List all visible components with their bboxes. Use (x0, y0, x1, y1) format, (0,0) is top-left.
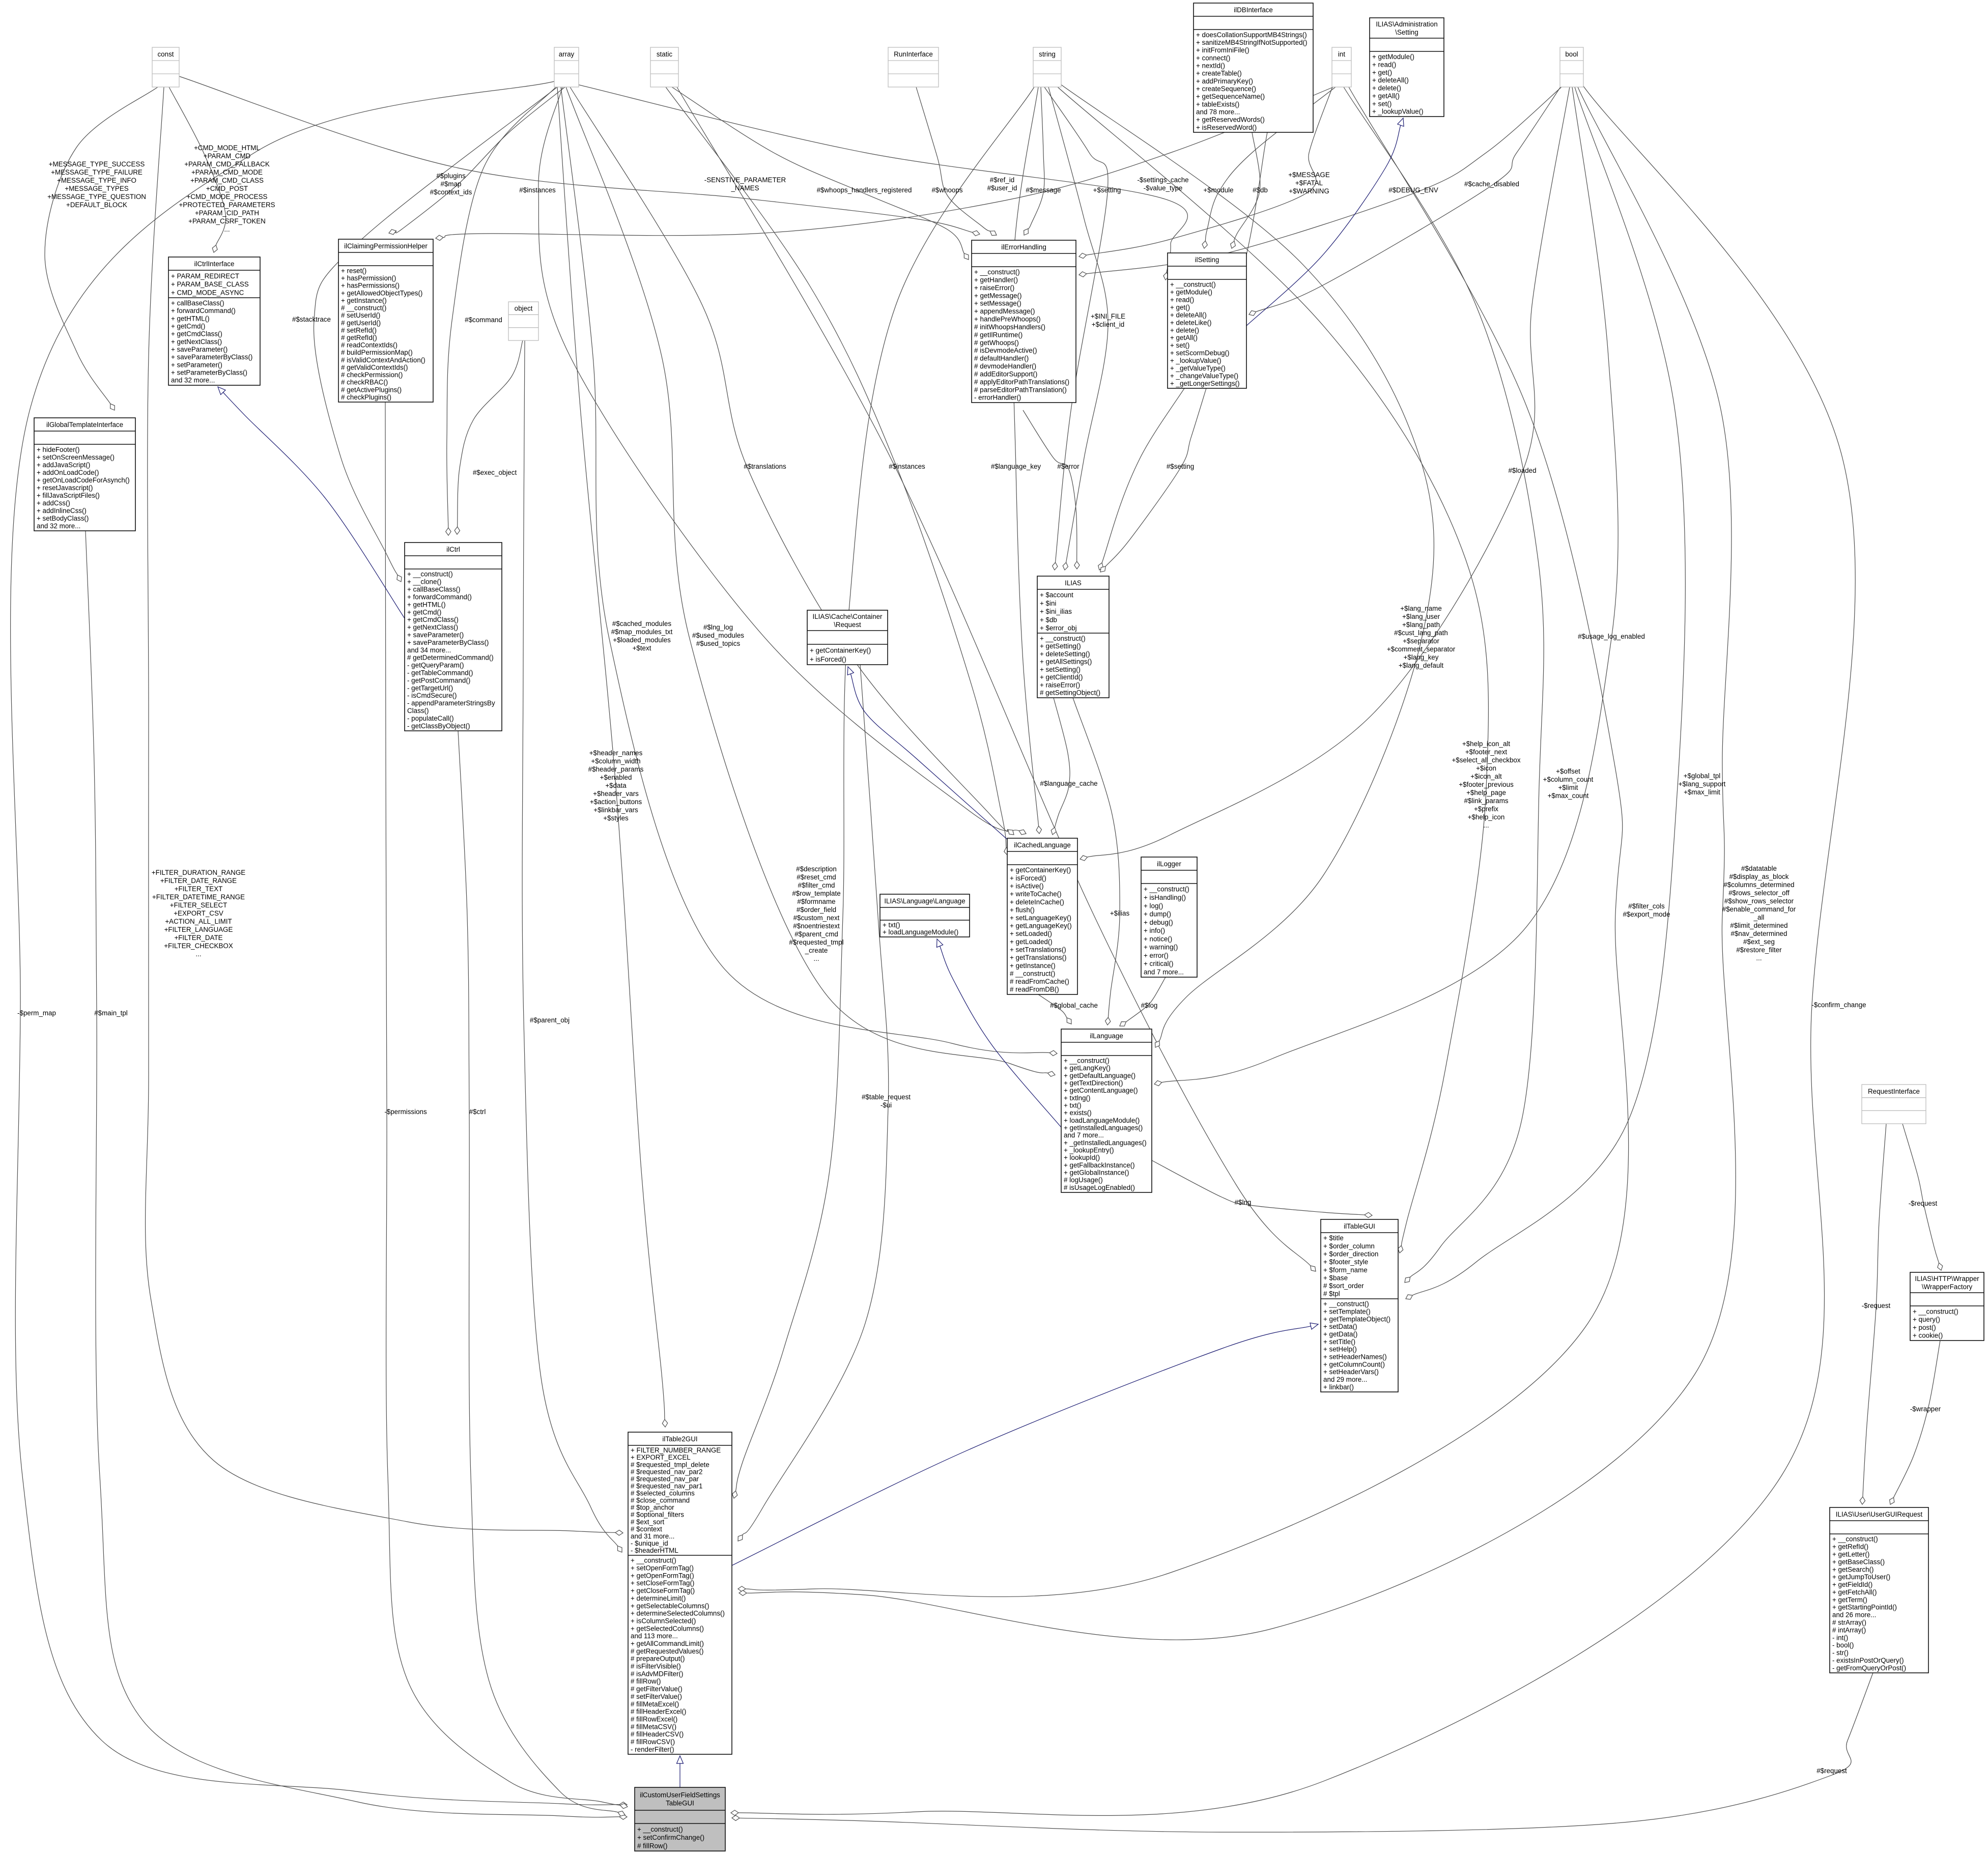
svg-text:+ getSequenceName(): + getSequenceName() (1196, 93, 1265, 100)
svg-text:+ __construct(): + __construct() (1832, 1535, 1878, 1543)
svg-text:#$instances: #$instances (519, 186, 556, 194)
edge int to ilTable2GUI (#$filter_cols #$export_mode) (738, 87, 1629, 1597)
svg-text:+ query(): + query() (1913, 1316, 1940, 1323)
edge bool to ilTable2GUI (#$datatable ...) (739, 87, 1736, 1640)
svg-text:ilErrorHandling: ilErrorHandling (1001, 243, 1046, 251)
svg-text:+ isForced(): + isForced() (810, 656, 846, 663)
edge int to ilErrorHandling (+$MESSAGE +$FATAL +$WARNING) (1079, 87, 1332, 259)
svg-text:# getUserId(): # getUserId() (341, 319, 381, 327)
svg-text:# $tpl: # $tpl (1323, 1290, 1340, 1298)
svg-text:+ debug(): + debug() (1144, 919, 1173, 926)
svg-text:+ deleteSetting(): + deleteSetting() (1040, 650, 1090, 658)
svg-text:# isUsageLogEnabled(): # isUsageLogEnabled() (1064, 1184, 1135, 1191)
svg-text:+ __construct(): + __construct() (1913, 1307, 1958, 1315)
edge object to ilTable2GUI (#$parent_obj) (522, 340, 622, 1552)
edge WrapperFactory to UserGUIRequest (-$wrapper) (1890, 1341, 1940, 1504)
svg-text:ilCachedLanguage: ilCachedLanguage (1014, 841, 1071, 849)
svg-text:+ __construct(): + __construct() (974, 268, 1020, 276)
svg-text:+ raiseError(): + raiseError() (1040, 681, 1080, 689)
svg-text:and 78 more...: and 78 more... (1196, 108, 1240, 116)
primitive type array (554, 47, 579, 87)
svg-text:# readContextIds(): # readContextIds() (341, 341, 397, 349)
svg-text:+ setCloseFormTag(): + setCloseFormTag() (631, 1579, 694, 1587)
svg-text:+ __construct(): + __construct() (1064, 1057, 1110, 1065)
svg-text:+ getFallbackInstance(): + getFallbackInstance() (1064, 1161, 1135, 1169)
svg-text:object: object (515, 305, 533, 312)
edge ilDBInterface to ilSetting (#$db) (1231, 132, 1260, 248)
svg-text:+ getData(): + getData() (1323, 1330, 1357, 1338)
svg-text:+ getOnLoadCodeForAsynch(): + getOnLoadCodeForAsynch() (37, 476, 130, 484)
svg-text:and 32 more...: and 32 more... (171, 377, 215, 384)
edge array to ilSetting (-$settings_cache -$value_type) (575, 84, 1187, 280)
svg-text:+ reset(): + reset() (341, 267, 366, 275)
svg-text:\WrapperFactory: \WrapperFactory (1922, 1283, 1973, 1291)
edge array to ilCtrl (#$stacktrace) (314, 87, 557, 582)
svg-text:+ addInlineCss(): + addInlineCss() (37, 507, 87, 515)
svg-text:ilCtrl: ilCtrl (446, 546, 460, 553)
class ILIAS Administration Setting (1370, 18, 1444, 117)
svg-text:+ saveParameterByClass(): + saveParameterByClass() (407, 639, 489, 646)
svg-text:+ getCmdClass(): + getCmdClass() (171, 330, 222, 338)
svg-text:+ getAllCommandLimit(): + getAllCommandLimit() (631, 1640, 704, 1647)
svg-text:+ fillJavaScriptFiles(): + fillJavaScriptFiles() (37, 492, 100, 499)
svg-text:# getValidContextIds(): # getValidContextIds() (341, 364, 408, 372)
edge array to ilLanguage (#$cached_modules ...) (561, 87, 1057, 1056)
svg-text:+ _getLongerSettings(): + _getLongerSettings() (1170, 380, 1240, 387)
svg-text:# $close_command: # $close_command (631, 1497, 690, 1504)
svg-text:#$whoops_handlers_registered: #$whoops_handlers_registered (817, 186, 912, 194)
svg-text:+ $title: + $title (1323, 1234, 1344, 1242)
svg-text:# setRefId(): # setRefId() (341, 326, 377, 334)
svg-text:+ txt(): + txt() (883, 921, 900, 929)
svg-text:- int(): - int() (1832, 1634, 1848, 1641)
svg-text:+ setOnScreenMessage(): + setOnScreenMessage() (37, 453, 115, 461)
edge array to ilLanguage (#$lng_log ...) (566, 87, 1055, 1076)
svg-text:+ setParameterByClass(): + setParameterByClass() (171, 369, 247, 377)
svg-text:# fillRowCSV(): # fillRowCSV() (631, 1738, 675, 1746)
svg-text:const: const (157, 50, 174, 58)
svg-text:ilDBInterface: ilDBInterface (1234, 6, 1273, 14)
svg-text:+ delete(): + delete() (1372, 84, 1401, 92)
svg-text:+ __construct(): + __construct() (631, 1557, 676, 1564)
svg-text:+ setTemplate(): + setTemplate() (1323, 1308, 1371, 1316)
svg-text:+ getTranslations(): + getTranslations() (1010, 954, 1067, 961)
svg-text:+ connect(): + connect() (1196, 54, 1230, 62)
svg-text:+ loadLanguageModule(): + loadLanguageModule() (1064, 1117, 1140, 1124)
class ilCustomUserFieldSettingsTableGUI (highlighted) (635, 1787, 725, 1851)
svg-text:+ saveParameter(): + saveParameter() (171, 346, 228, 353)
svg-text:+ CMD_MODE_ASYNC: + CMD_MODE_ASYNC (171, 289, 244, 296)
svg-text:+ getCmd(): + getCmd() (171, 323, 205, 330)
svg-text:+ delete(): + delete() (1170, 326, 1199, 334)
svg-text:ilCustomUserFieldSettings: ilCustomUserFieldSettings (640, 1791, 720, 1799)
svg-text:+ setLanguageKey(): + setLanguageKey() (1010, 914, 1071, 922)
svg-text:+ exists(): + exists() (1064, 1109, 1092, 1117)
edge string to ilErrorHandling (#$message) (1024, 87, 1044, 235)
edge static to ilErrorHandling (#$whoops_handlers_registered) (672, 87, 969, 260)
class ilLanguage (1061, 1029, 1152, 1192)
svg-text:+ getJumpToUser(): + getJumpToUser() (1832, 1573, 1890, 1581)
class ilDBInterface (1194, 3, 1313, 132)
svg-text:# defaultHandler(): # defaultHandler() (974, 355, 1029, 362)
edge ilClaimingPermissionHelper to ilCustomUserFieldSettingsTableGUI (-$permissions) (385, 402, 628, 1809)
svg-text:+ read(): + read() (1372, 61, 1396, 68)
svg-text:# fillMetaExcel(): # fillMetaExcel() (631, 1700, 679, 1708)
svg-text:+ initFromIniFile(): + initFromIniFile() (1196, 46, 1249, 54)
edge ILIAS to ilLanguage (+$ilias) (1073, 698, 1120, 1025)
svg-text:+ doesCollationSupportMB4Strin: + doesCollationSupportMB4Strings() (1196, 31, 1307, 39)
svg-text:# parseEditorPathTranslation(): # parseEditorPathTranslation() (974, 386, 1067, 393)
svg-text:\Request: \Request (834, 621, 861, 629)
svg-text:#$lng: #$lng (1235, 1199, 1252, 1206)
svg-text:#$filter_cols#$export_mode: #$filter_cols#$export_mode (1623, 902, 1670, 918)
svg-text:+ getColumnCount(): + getColumnCount() (1323, 1360, 1385, 1368)
svg-text:+ hideFooter(): + hideFooter() (37, 446, 79, 453)
svg-text:+ linkbar(): + linkbar() (1323, 1383, 1354, 1391)
interface ilGlobalTemplateInterface (34, 418, 135, 531)
svg-text:and 113 more...: and 113 more... (631, 1632, 678, 1640)
svg-text:+ getModule(): + getModule() (1170, 289, 1212, 296)
svg-text:# getDeterminedCommand(): # getDeterminedCommand() (407, 654, 494, 662)
svg-text:+$module: +$module (1203, 186, 1233, 194)
svg-text:# $requested_nav_par1: # $requested_nav_par1 (631, 1483, 702, 1490)
svg-text:-$wrapper: -$wrapper (1910, 1405, 1941, 1413)
edge array to ilClaimingPermissionHelper (#$plugins #$map #$context_ids) (389, 87, 565, 235)
class ILIAS User UserGUIRequest (1830, 1507, 1928, 1673)
edge ilDBInterface to ILIAS (+$db) (1098, 132, 1267, 570)
edge RunInterface to ilErrorHandling (#$whoops) (916, 87, 997, 236)
svg-text:+ getHTML(): + getHTML() (171, 315, 210, 322)
svg-text:#$message: #$message (1026, 186, 1061, 194)
svg-text:+ addCss(): + addCss() (37, 499, 70, 507)
svg-text:+ dump(): + dump() (1144, 910, 1171, 918)
svg-text:- getTargetUrl(): - getTargetUrl() (407, 684, 453, 692)
svg-text:+ isActive(): + isActive() (1010, 882, 1044, 890)
svg-text:#$request: #$request (1816, 1767, 1847, 1775)
svg-text:+ createTable(): + createTable() (1196, 70, 1242, 77)
svg-text:+ cookie(): + cookie() (1913, 1332, 1943, 1340)
svg-text:- isCmdSecure(): - isCmdSecure() (407, 692, 457, 699)
svg-text:+ nextId(): + nextId() (1196, 62, 1225, 70)
svg-text:+ resetJavascript(): + resetJavascript() (37, 484, 93, 492)
svg-text:+ getModule(): + getModule() (1372, 53, 1414, 61)
svg-text:# initWhoopsHandlers(): # initWhoopsHandlers() (974, 323, 1045, 331)
svg-text:+ setLoaded(): + setLoaded() (1010, 930, 1052, 937)
svg-text:#$language_key: #$language_key (991, 463, 1041, 470)
svg-text:+ lookupId(): + lookupId() (1064, 1154, 1100, 1161)
edge bool to ilCustomUserFieldSettingsTableGUI (-$confirm_change) (731, 84, 1855, 1815)
svg-text:-$settings_cache-$value_type: -$settings_cache-$value_type (1137, 176, 1188, 192)
svg-text:+ deleteLike(): + deleteLike() (1170, 319, 1212, 326)
svg-text:- str(): - str() (1832, 1649, 1849, 1657)
interface ilCtrlInterface (168, 257, 260, 385)
svg-text:+ addPrimaryKey(): + addPrimaryKey() (1196, 77, 1253, 85)
svg-text:and 34 more...: and 34 more... (407, 646, 451, 654)
class ilLogger (1141, 857, 1197, 977)
svg-text:-$request: -$request (1909, 1200, 1938, 1207)
svg-text:+ post(): + post() (1913, 1324, 1936, 1331)
svg-text:# __construct(): # __construct() (341, 304, 386, 312)
edge int to ilTableGUI (+$offset +$column_count +$limit +$max_count) (1344, 87, 1544, 1283)
svg-text:+ log(): + log() (1144, 902, 1163, 909)
svg-text:#$global_cache: #$global_cache (1050, 1002, 1098, 1009)
svg-text:+ FILTER_NUMBER_RANGE: + FILTER_NUMBER_RANGE (631, 1446, 721, 1454)
svg-text:+ isHandling(): + isHandling() (1144, 894, 1186, 901)
svg-text:-$permissions: -$permissions (384, 1108, 427, 1116)
svg-text:# $selected_columns: # $selected_columns (631, 1490, 695, 1497)
edge int to ilSetting (+$module) (1202, 87, 1336, 248)
inheritance ilLanguage to ILIAS\Language\Language (937, 939, 1062, 1127)
svg-text:+ read(): + read() (1170, 296, 1194, 304)
svg-text:+ getDefaultLanguage(): + getDefaultLanguage() (1064, 1072, 1135, 1079)
svg-text:- getTableCommand(): - getTableCommand() (407, 669, 473, 677)
svg-text:+ getCmdClass(): + getCmdClass() (407, 616, 459, 623)
svg-text:and 7 more...: and 7 more... (1144, 968, 1184, 976)
svg-text:+ forwardCommand(): + forwardCommand() (407, 593, 472, 601)
svg-text:+ determineLimit(): + determineLimit() (631, 1594, 686, 1602)
svg-text:# logUsage(): # logUsage() (1064, 1176, 1103, 1184)
svg-text:+ isForced(): + isForced() (1010, 874, 1046, 882)
svg-text:# getWhoops(): # getWhoops() (974, 339, 1019, 347)
svg-text:+ __construct(): + __construct() (407, 571, 453, 578)
svg-text:+ getRefId(): + getRefId() (1832, 1543, 1868, 1551)
svg-text:#$instances: #$instances (889, 463, 925, 470)
inheritance ilCachedLanguage to ILIAS\Cache\Container\Request (847, 667, 1009, 841)
primitive type int (1332, 47, 1351, 87)
svg-text:and 29 more...: and 29 more... (1323, 1376, 1367, 1383)
svg-text:+ createSequence(): + createSequence() (1196, 85, 1256, 93)
svg-text:+ setTranslations(): + setTranslations() (1010, 946, 1066, 954)
edge ilCtrl to ilCustomUserFieldSettingsTableGUI (#$ctrl) (458, 731, 625, 1816)
svg-text:static: static (657, 50, 673, 58)
svg-text:ilTable2GUI: ilTable2GUI (662, 1435, 697, 1443)
svg-text:\Setting: \Setting (1395, 29, 1418, 36)
svg-text:+ $error_obj: + $error_obj (1040, 624, 1077, 632)
svg-text:# readFromCache(): # readFromCache() (1010, 978, 1069, 985)
svg-text:ILIAS\Language\Language: ILIAS\Language\Language (884, 897, 965, 905)
svg-text:- $unique_id: - $unique_id (631, 1540, 668, 1547)
svg-text:+ forwardCommand(): + forwardCommand() (171, 307, 236, 315)
svg-text:+ hasPermission(): + hasPermission() (341, 274, 396, 282)
svg-text:# getFilterValue(): # getFilterValue() (631, 1685, 683, 1693)
svg-text:+ getAll(): + getAll() (1372, 92, 1400, 100)
edge string to ilTableGUI (+$help_icon_alt ...) (1058, 87, 1488, 1253)
svg-text:#$parent_obj: #$parent_obj (530, 1016, 570, 1024)
edge string to ilCachedLanguage (#$language_key) (1012, 87, 1041, 834)
svg-text:+ getNextClass(): + getNextClass() (171, 338, 222, 346)
svg-text:+ txt(): + txt() (1064, 1102, 1082, 1109)
svg-text:+ setData(): + setData() (1323, 1323, 1357, 1330)
svg-text:+ hasPermissions(): + hasPermissions() (341, 282, 400, 290)
edge ilErrorHandling to ILIAS (#$error) (1023, 410, 1080, 569)
svg-text:+ setMessage(): + setMessage() (974, 300, 1021, 307)
svg-text:+ getFetchAll(): + getFetchAll() (1832, 1588, 1877, 1596)
svg-text:#$whoops: #$whoops (931, 186, 962, 194)
svg-text:#$command: #$command (465, 316, 502, 324)
svg-text:+ addJavaScript(): + addJavaScript() (37, 461, 90, 469)
inheritance ilTable2GUI to ilTableGUI (732, 1323, 1318, 1565)
class ILIAS HTTP Wrapper WrapperFactory (1910, 1272, 1984, 1341)
svg-text:+ setSetting(): + setSetting() (1040, 666, 1081, 673)
svg-text:- getPostCommand(): - getPostCommand() (407, 676, 470, 684)
edge const to ilCtrlInterface (CMD/PARAM consts) (169, 87, 226, 252)
svg-text:# getRefId(): # getRefId() (341, 334, 377, 341)
edge ilCachedLanguage to ilLanguage (#$global_cache) (1038, 994, 1071, 1024)
svg-text:+ $order_direction: + $order_direction (1323, 1250, 1378, 1258)
svg-text:+ _getInstalledLanguages(): + _getInstalledLanguages() (1064, 1139, 1147, 1147)
svg-text:+ tableExists(): + tableExists() (1196, 100, 1239, 108)
svg-text:+ $ini: + $ini (1040, 600, 1056, 607)
edge const to ilTable2GUI (FILTER_* consts) (146, 87, 623, 1535)
class ilCtrl (405, 543, 502, 731)
svg-text:+ getSearch(): + getSearch() (1832, 1565, 1874, 1573)
svg-text:+ PARAM_BASE_CLASS: + PARAM_BASE_CLASS (171, 280, 249, 288)
svg-text:# intArray(): # intArray() (1832, 1626, 1866, 1634)
svg-text:- getQueryParam(): - getQueryParam() (407, 662, 464, 669)
svg-text:ilCtrlInterface: ilCtrlInterface (194, 260, 235, 268)
svg-text:# fillHeaderExcel(): # fillHeaderExcel() (631, 1708, 686, 1716)
svg-text:+$setting: +$setting (1093, 186, 1121, 194)
primitive type const (152, 47, 179, 87)
svg-text:RunInterface: RunInterface (894, 50, 933, 58)
svg-text:+ getContainerKey(): + getContainerKey() (810, 647, 871, 654)
svg-text:# $requested_nav_par2: # $requested_nav_par2 (631, 1468, 702, 1475)
svg-text:# getSettingObject(): # getSettingObject() (1040, 689, 1100, 697)
svg-text:array: array (559, 50, 575, 58)
class ilSetting (1168, 253, 1246, 388)
svg-text:RequestInterface: RequestInterface (1868, 1088, 1920, 1095)
svg-text:# fillRow(): # fillRow() (637, 1842, 668, 1849)
edge ilSetting to ILIAS (#$setting) (1100, 388, 1206, 572)
svg-text:#$main_tpl: #$main_tpl (94, 1009, 128, 1017)
svg-text:- $headerHTML: - $headerHTML (631, 1547, 678, 1554)
svg-text:# $requested_tmpl_delete: # $requested_tmpl_delete (631, 1461, 709, 1468)
svg-text:+ notice(): + notice() (1144, 935, 1172, 943)
svg-text:+ EXPORT_EXCEL: + EXPORT_EXCEL (631, 1454, 691, 1461)
edge string to ilTable2GUI (#$description ...) (732, 87, 1034, 1498)
svg-text:+ callBaseClass(): + callBaseClass() (407, 586, 461, 593)
svg-text:ilGlobalTemplateInterface: ilGlobalTemplateInterface (46, 421, 123, 429)
svg-text:and 7 more...: and 7 more... (1064, 1131, 1104, 1139)
svg-text:# getIlRuntime(): # getIlRuntime() (974, 331, 1023, 338)
edge RequestInterface to WrapperFactory (-$request) (1902, 1124, 1943, 1270)
svg-text:ILIAS\Cache\Container: ILIAS\Cache\Container (813, 613, 883, 620)
edge ILIAS to ilCachedLanguage (#$language_cache) (1051, 698, 1070, 835)
svg-text:- errorHandler(): - errorHandler() (974, 394, 1021, 402)
edge array to ilTable2GUI (+$header_names ...) (557, 87, 668, 1427)
edge ilLogger to ilLanguage (#$log) (1120, 977, 1166, 1026)
edge string to ILIAS (+$INI_FILE +$client_id) (1048, 87, 1108, 570)
svg-text:string: string (1039, 50, 1056, 58)
svg-text:# addEditorSupport(): # addEditorSupport() (974, 370, 1037, 378)
svg-text:ilTableGUI: ilTableGUI (1344, 1222, 1375, 1230)
svg-text:+ getAll(): + getAll() (1170, 334, 1198, 341)
svg-text:+ getAllSettings(): + getAllSettings() (1040, 658, 1092, 666)
edge bool to ilErrorHandling (#$DEBUG_ENV) (1079, 87, 1561, 277)
edge const to ilErrorHandling (SENSTIVE_PARAMETER_NAMES) (179, 76, 980, 236)
svg-text:#$loaded: #$loaded (1508, 467, 1536, 474)
svg-text:+ error(): + error() (1144, 952, 1169, 959)
svg-text:+ __construct(): + __construct() (1323, 1300, 1369, 1308)
class ilCachedLanguage (1007, 838, 1077, 994)
edge ilGlobalTemplateInterface to ilCustomUserFieldSettingsTableGUI (#$main_tpl) (86, 531, 627, 1819)
svg-text:# checkPermission(): # checkPermission() (341, 371, 403, 379)
svg-text:+ getHandler(): + getHandler() (974, 276, 1018, 284)
svg-text:# fillHeaderCSV(): # fillHeaderCSV() (631, 1730, 684, 1738)
svg-text:bool: bool (1565, 50, 1578, 58)
svg-text:+ $order_column: + $order_column (1323, 1242, 1375, 1250)
svg-text:- bool(): - bool() (1832, 1641, 1854, 1649)
svg-text:ilLogger: ilLogger (1157, 860, 1181, 868)
svg-text:# isFilterVisible(): # isFilterVisible() (631, 1663, 681, 1670)
svg-text:# fillRowExcel(): # fillRowExcel() (631, 1716, 677, 1723)
class ilTableGUI (1321, 1219, 1398, 1392)
edge array to ilCachedLanguage (#$instances) (538, 87, 1026, 835)
svg-text:+ sanitizeMB4StringIfNotSuppor: + sanitizeMB4StringIfNotSupported() (1196, 39, 1307, 46)
svg-text:# devmodeHandler(): # devmodeHandler() (974, 362, 1036, 370)
svg-text:+ callBaseClass(): + callBaseClass() (171, 299, 224, 307)
primitive type static (650, 47, 678, 87)
svg-text:# getActivePlugins(): # getActivePlugins() (341, 386, 402, 393)
svg-text:+ getOpenFormTag(): + getOpenFormTag() (631, 1572, 694, 1579)
svg-text:+ getMessage(): + getMessage() (974, 292, 1021, 299)
svg-text:#$ctrl: #$ctrl (469, 1108, 486, 1116)
svg-text:# $context: # $context (631, 1525, 662, 1533)
svg-text:- getClassByObject(): - getClassByObject() (407, 722, 470, 730)
svg-text:# $ext_sort: # $ext_sort (631, 1518, 665, 1526)
svg-text:ILIAS\Administration: ILIAS\Administration (1376, 20, 1437, 28)
svg-text:+ addOnLoadCode(): + addOnLoadCode() (37, 469, 99, 476)
svg-text:+ setScormDebug(): + setScormDebug() (1170, 349, 1229, 357)
svg-text:+$INI_FILE+$client_id: +$INI_FILE+$client_id (1091, 312, 1125, 328)
svg-text:# __construct(): # __construct() (1010, 970, 1055, 977)
svg-text:# $top_anchor: # $top_anchor (631, 1504, 674, 1512)
svg-text:#$exec_object: #$exec_object (473, 469, 517, 476)
edge string to ILIAS (+$setting) (1044, 87, 1108, 570)
svg-text:+ getFieldId(): + getFieldId() (1832, 1581, 1872, 1588)
svg-text:+ $base: + $base (1323, 1274, 1348, 1281)
svg-text:- renderFilter(): - renderFilter() (631, 1746, 674, 1753)
svg-text:- getFromQueryOrPost(): - getFromQueryOrPost() (1832, 1664, 1906, 1672)
interface RequestInterface (1862, 1085, 1926, 1124)
svg-text:# isAdvMDFilter(): # isAdvMDFilter() (631, 1670, 683, 1677)
edge ILIAS\User\UserGUIRequest to ilTable2GUI (#$request) (732, 1673, 1873, 1832)
svg-text:+ __construct(): + __construct() (637, 1826, 683, 1833)
svg-text:+ _getValueType(): + _getValueType() (1170, 364, 1226, 372)
class ILIAS Cache Container Request (807, 610, 888, 665)
svg-text:+ setHeaderNames(): + setHeaderNames() (1323, 1353, 1387, 1361)
svg-text:#$log: #$log (1141, 1002, 1158, 1009)
edge ilLanguage to ilTableGUI (#$lng) (1152, 1160, 1372, 1218)
edge const to ilGlobalTemplateInterface (MESSAGE_TYPE consts) (45, 87, 158, 410)
interface RunInterface (888, 47, 939, 87)
svg-text:+ setHeaderVars(): + setHeaderVars() (1323, 1368, 1379, 1376)
svg-text:# fillMetaCSV(): # fillMetaCSV() (631, 1723, 676, 1730)
svg-text:# isDevmodeActive(): # isDevmodeActive() (974, 347, 1037, 354)
svg-text:+ loadLanguageModule(): + loadLanguageModule() (883, 928, 958, 936)
inheritance ilSetting to ILIAS\Administration\Setting (1246, 118, 1404, 326)
edge static to ilCachedLanguage (#$instances) (666, 87, 1009, 855)
svg-text:+ txtlng(): + txtlng() (1064, 1094, 1090, 1102)
svg-text:- populateCall(): - populateCall() (407, 715, 454, 722)
class ilTable2GUI (628, 1432, 732, 1754)
edge array to ilCustomUserFieldSettingsTableGUI (-$perm_map) (11, 81, 627, 1807)
svg-text:ILIAS\HTTP\Wrapper: ILIAS\HTTP\Wrapper (1915, 1275, 1979, 1283)
svg-text:+ getInstance(): + getInstance() (1010, 962, 1056, 970)
svg-text:+ getTemplateObject(): + getTemplateObject() (1323, 1315, 1390, 1323)
svg-text:#$db: #$db (1253, 186, 1268, 194)
svg-text:+ deleteInCache(): + deleteInCache() (1010, 898, 1064, 906)
